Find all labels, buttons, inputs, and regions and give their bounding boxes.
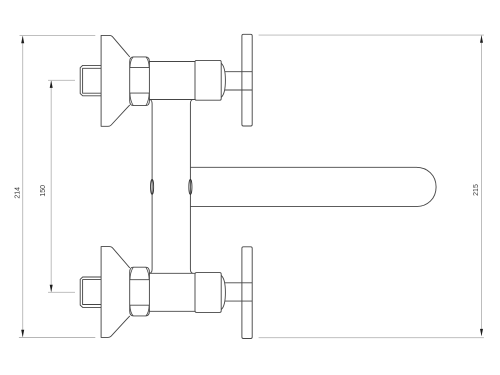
arrow 214 bottom <box>21 330 24 337</box>
body left edge <box>150 100 152 274</box>
nipple top outer <box>80 65 101 95</box>
arrow 214 top <box>21 36 24 43</box>
cartridge dome bottom <box>221 276 225 310</box>
hex nut top band lines <box>130 68 150 94</box>
nipple top inner lines <box>83 68 102 93</box>
spout <box>191 167 437 206</box>
cartridge housing top <box>195 60 221 100</box>
dimension line 150 <box>50 81 52 292</box>
valve sleeve bottom <box>149 273 195 311</box>
extension line top-right <box>259 34 484 36</box>
dimension line 215 <box>481 36 483 336</box>
cartridge housing bottom <box>195 273 221 313</box>
hex nut bottom band lines <box>130 280 150 306</box>
extension line top-left <box>20 35 96 37</box>
nipple bottom outer <box>80 277 101 307</box>
stem bottom lines <box>225 283 252 301</box>
arrow 150 top <box>50 81 53 88</box>
cartridge dome top <box>221 63 225 97</box>
svg-text:214: 214 <box>15 187 22 199</box>
extension line bottom-left <box>19 337 95 339</box>
pivot ellipse right <box>189 179 192 194</box>
hex nut top chamfer curves <box>130 57 149 106</box>
pivot ellipse left <box>151 179 154 194</box>
extension line 150 bottom <box>48 291 75 293</box>
hex nut bottom chamfer curves <box>130 267 149 316</box>
arrow 215 bottom <box>480 329 483 336</box>
escutcheon bottom <box>101 247 130 338</box>
arrow 150 bottom <box>50 285 53 292</box>
hex nut top <box>130 57 150 106</box>
dimension line 214 <box>22 36 24 337</box>
valve sleeve top <box>149 62 195 100</box>
svg-text:215: 215 <box>473 184 480 196</box>
extension line bottom-right <box>259 337 484 339</box>
escutcheon top <box>101 35 130 126</box>
nipple bottom inner lines <box>83 280 102 305</box>
stem top lines <box>225 72 252 90</box>
svg-text:150: 150 <box>40 185 47 197</box>
body right edge <box>190 100 192 274</box>
handle bar bottom <box>242 247 252 339</box>
arrow 215 top <box>480 35 483 42</box>
hex nut bottom <box>130 267 150 316</box>
extension line 150 top <box>48 79 75 81</box>
handle bar top <box>242 34 252 126</box>
